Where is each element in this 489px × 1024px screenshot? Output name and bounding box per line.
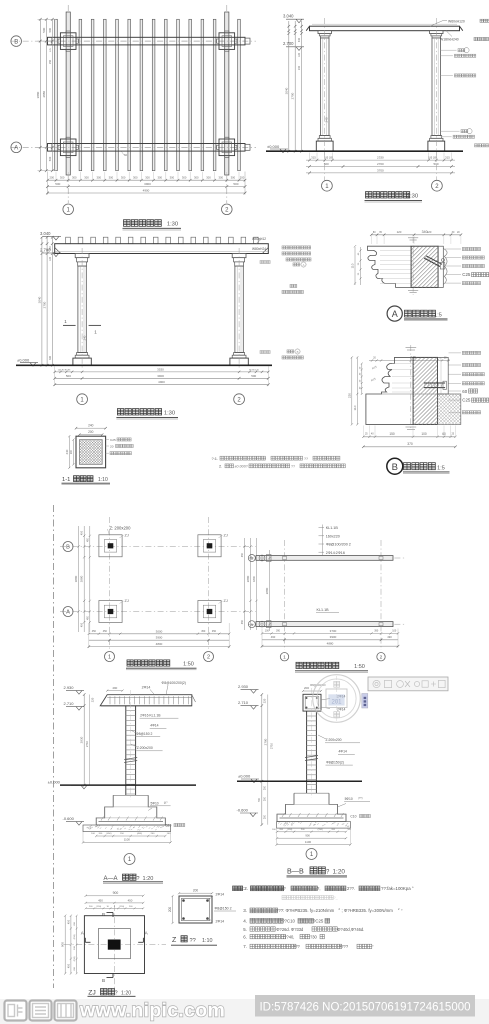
svg-text:??:fak=100Kpa °: ??:fak=100Kpa ° [381,886,414,891]
svg-text:160x220: 160x220 [326,535,340,539]
svg-text:B: B [14,39,18,45]
roof plan - beam KL1.1B top [256,556,393,561]
svg-text:1:20: 1:20 [333,868,346,875]
svg-text:500: 500 [233,182,238,186]
detail B - left side leader labels [287,350,290,353]
svg-text:110: 110 [353,405,357,410]
svg-text:450: 450 [92,630,97,633]
svg-text:2700: 2700 [291,92,295,99]
svg-text::??C10: :??C10 [281,919,295,924]
svg-text:Z:200x200: Z:200x200 [326,738,342,742]
plan view - title block text [124,220,131,227]
svg-text:?C25: ?C25 [313,919,324,924]
foundation plan - axis bubble A [63,607,73,617]
plan view - axis bubble 2 [222,204,233,215]
svg-text:120 90 90 85: 120 90 90 85 [58,369,72,371]
svg-text:2.710: 2.710 [64,701,75,706]
foundation plan - bottom dimension rows [89,633,229,635]
ZJ plan - centerlines [113,905,115,988]
foundation plan - centerlines [60,546,256,548]
section B-B - bottom dimension rows [277,831,346,833]
svg-text:500: 500 [251,374,256,378]
svg-text:340: 340 [298,37,301,42]
front elevation - axis bubble 1 [77,394,88,405]
section B-B - beam section at top [303,694,321,711]
svg-text:1-1: 1-1 [62,477,70,483]
Z detail - top dimension 200 [179,892,212,894]
svg-text:(150): (150) [74,956,76,961]
detail B - title bubble and text [387,458,403,474]
svg-text:(450): (450) [137,833,142,835]
svg-text:220: 220 [262,698,266,703]
svg-text:200: 200 [263,785,266,790]
Z detail - column section square [179,896,212,923]
svg-text:Φ8@150 2: Φ8@150 2 [215,906,232,910]
plan view - beam end caps [51,37,53,45]
svg-text:200: 200 [193,888,199,892]
svg-text:300: 300 [121,176,126,180]
svg-text:Z: 200x200: Z: 200x200 [110,526,132,531]
detail B - bottom dimension rows [363,436,455,438]
svg-text:4880: 4880 [327,642,334,646]
svg-text:200: 200 [263,814,266,819]
svg-text:370: 370 [407,442,413,446]
ID gray box [255,995,475,1017]
side elevation - top leader labels W60xH120 [430,21,443,27]
plan view - axis bubble B [11,36,22,47]
svg-text:B: B [250,556,253,561]
plan view - axis bubble 1 [63,204,74,215]
svg-text:1:10: 1:10 [98,477,108,483]
svg-text:(150): (150) [96,906,101,908]
svg-text:4Φ14: 4Φ14 [150,724,158,728]
svg-text:2: 2 [207,655,210,661]
svg-text:??: ?? [262,457,266,461]
svg-text:450: 450 [241,619,244,624]
svg-text:KL1.1B: KL1.1B [326,526,339,530]
svg-text:(150): (150) [74,934,76,939]
svg-text:900: 900 [113,891,119,895]
svg-text:±0.000?: ±0.000? [235,464,248,468]
svg-text:450: 450 [81,530,84,535]
svg-text:±0.000: ±0.000 [238,773,251,778]
svg-text:KL1.1B: KL1.1B [317,608,330,612]
svg-text:1800: 1800 [252,576,256,582]
svg-text:3700: 3700 [330,629,337,633]
svg-text:2880: 2880 [246,575,250,582]
nipic circular stamp watermark [313,675,361,723]
svg-text:?: ? [137,876,140,882]
detail B - right lower hatched cushion [438,394,461,424]
section 1-1 - right leader labels [106,439,109,441]
svg-text:W80xH24: W80xH24 [252,247,266,251]
svg-text:500: 500 [55,182,60,186]
roof plan - bottom dimension rows [262,632,398,634]
svg-text:(150): (150) [287,829,292,831]
svg-text:2: 2 [380,655,383,661]
svg-text:240: 240 [298,65,301,70]
svg-text:300: 300 [145,176,150,180]
svg-text:2Φ14: 2Φ14 [142,686,151,690]
section A-A - column splice break marks [124,758,137,760]
svg-text:220: 220 [91,697,95,702]
svg-text:Φ8@150(2): Φ8@150(2) [326,761,344,765]
svg-text:2700: 2700 [43,301,47,308]
svg-text:240: 240 [82,335,86,340]
svg-text:B: B [392,462,398,473]
general notes faint overlap line [282,896,286,900]
svg-text:W60xH12: W60xH12 [252,237,266,241]
detail B - left dimension stack [351,357,353,424]
front elevation - section cut 1-1 marks [63,324,76,326]
roof plan - beam start column symbol top [259,555,265,561]
svg-text:60: 60 [442,432,446,436]
svg-text:1:20: 1:20 [121,990,131,996]
foundation plan - axis bubble 1 [105,652,115,662]
svg-text:2??.: 2??. [347,886,355,891]
svg-text:1: 1 [283,655,286,661]
svg-text:315: 315 [311,156,316,160]
svg-text:2.930: 2.930 [64,685,75,690]
svg-text:-0.600: -0.600 [63,816,75,821]
svg-text:2.: 2. [219,463,222,468]
svg-text:??: ?? [190,938,196,944]
svg-text:3700: 3700 [377,169,384,173]
svg-text:2880: 2880 [265,587,269,594]
foundation plan - left dimension stack [78,526,80,632]
svg-text:300: 300 [231,176,236,180]
detail A - center line and marks [412,237,414,295]
svg-text:C10: C10 [350,814,356,818]
side elevation - axis bubble 2 [435,152,437,180]
svg-text:240: 240 [88,424,94,428]
svg-text:120: 120 [427,230,432,234]
svg-text:2710: 2710 [85,740,89,747]
svg-text:3.040: 3.040 [283,14,294,19]
detail A - left molding profile [368,246,412,287]
svg-text:??: ?? [281,886,286,891]
roof plan - beam start column symbol bottom [259,621,265,627]
svg-text:1:30: 1:30 [167,222,178,228]
svg-text:A: A [392,309,398,319]
svg-text:200: 200 [88,430,94,434]
svg-text:C25: C25 [110,438,116,442]
svg-text:; Φ?HRB335. fy=300N/mm: ; Φ?HRB335. fy=300N/mm [342,908,394,913]
svg-text:700: 700 [258,797,261,802]
svg-text:1:50: 1:50 [183,661,194,667]
svg-text:4.: 4. [243,919,247,924]
svg-text:(150): (150) [119,906,124,908]
svg-text:ZJ: ZJ [125,533,129,537]
foundation plan - axis bubble B [63,542,73,552]
svg-text:110: 110 [351,263,355,268]
svg-text:2Φ14: 2Φ14 [216,919,225,923]
svg-text:3900: 3900 [144,182,151,186]
detail B - top dimension row [369,360,450,362]
svg-text:100: 100 [392,630,397,633]
svg-text:20: 20 [110,444,114,448]
svg-text:2880: 2880 [42,91,46,98]
detail A - left side leader labels [282,246,285,249]
sheet edge dashed line [53,505,55,988]
plan view - vertical axis centerline 1 [67,5,69,203]
svg-text:450: 450 [128,898,133,902]
svg-text:185 185: 185 185 [324,157,333,160]
svg-text:450: 450 [241,552,244,557]
svg-text:300: 300 [218,176,223,180]
pergola plan view - axis centerline B [11,40,257,42]
svg-text:315: 315 [445,156,450,160]
Z detail - left dimension 200 [172,896,174,923]
svg-text:450: 450 [98,898,103,902]
front elevation - title text [117,409,123,415]
svg-text:4900: 4900 [158,380,165,384]
svg-text:W180xH240: W180xH240 [440,38,459,42]
svg-text:3.040: 3.040 [40,231,51,236]
side elevation - axis bubble 1 [324,152,326,180]
svg-text:2710: 2710 [269,742,273,749]
foundation plan - footings ZJ [99,535,122,557]
svg-text:±0.000: ±0.000 [48,780,61,785]
roof plan - axis bubble 1 [280,653,288,661]
svg-text::2.: :2. [243,886,248,891]
svg-text:?30: ?30 [310,934,318,939]
front elevation - main beam [55,244,269,254]
svg-text:???: ??? [293,944,301,949]
svg-text:Φ8@100/200(2): Φ8@100/200(2) [162,681,186,685]
svg-text:3880: 3880 [36,91,40,98]
section A-A - dim 490 and rebar labels [107,690,122,692]
plan view - top beam (axis B) [48,37,246,45]
svg-text:1100: 1100 [305,840,312,844]
svg-text:ZJ: ZJ [88,989,96,996]
svg-text:3530: 3530 [157,367,164,371]
svg-text:2700: 2700 [377,162,384,166]
svg-text:??: ?? [304,457,308,461]
svg-text:450: 450 [212,630,217,633]
svg-text:2930: 2930 [80,736,84,743]
svg-text:A: A [250,622,253,627]
svg-text:200: 200 [49,176,54,180]
svg-text:?,: ?, [317,886,321,891]
plan view - vertical axis centerline 2 [226,5,228,203]
side elevation - bottom dimension rows [306,159,455,161]
svg-text:450: 450 [201,630,206,633]
svg-text:240: 240 [325,117,329,122]
svg-text:2790: 2790 [263,738,267,745]
svg-text:300: 300 [84,176,89,180]
svg-text:60: 60 [124,153,128,157]
svg-text:340: 340 [49,246,52,251]
svg-text:3880: 3880 [74,575,78,582]
section A-A - left dimension line [83,695,85,786]
ZJ plan - outer footing square [84,916,144,974]
foundation plan - axis bubble 2 [204,652,214,662]
svg-text:C25: C25 [462,272,471,277]
svg-text:5.: 5. [243,927,247,932]
svg-text:900: 900 [61,942,65,947]
svg-text:1:10: 1:10 [202,938,213,944]
svg-text:240: 240 [65,449,69,454]
roof plan - beam KL1.1B bottom [256,622,393,627]
svg-text:490: 490 [271,635,276,639]
svg-text:3040: 3040 [37,296,41,303]
svg-text:Z:200x200: Z:200x200 [137,746,153,750]
svg-text:Φ8@100/200 2: Φ8@100/200 2 [326,543,351,547]
svg-text:??(?_: ??(?_ [328,896,339,900]
side elevation - title text [366,192,372,198]
svg-text:A: A [303,263,305,267]
detail B - bottom center marks [406,426,417,428]
plan view - left dimension lines [39,19,41,170]
front elevation - bottom dimension rows [55,371,269,373]
svg-text:900: 900 [305,833,310,837]
detail A - hatched core block [411,246,438,287]
svg-text:3000: 3000 [156,629,163,633]
svg-text:?: ? [115,990,118,996]
svg-text:300: 300 [72,176,77,180]
svg-text:1: 1 [108,655,111,661]
side elevation - left column [318,31,331,34]
svg-text:300: 300 [109,176,114,180]
svg-text:300: 300 [60,176,65,180]
section B-B - stepped footing [277,793,346,821]
svg-text:60: 60 [462,389,467,394]
section A-A - stepped footing [96,795,165,825]
svg-text:200: 200 [70,449,73,454]
bottom watermark bar background [0,999,489,1024]
foundation plan - title text [127,660,133,666]
section A-A - footing rebar hooks [101,817,104,821]
svg-text::??40,: :??40, [283,934,294,939]
svg-text:5Φ10: 5Φ10 [345,797,353,801]
svg-text:300: 300 [49,355,52,360]
svg-text:: Φ?40d,Φ?46d.: : Φ?40d,Φ?46d. [335,927,364,932]
svg-text:3900: 3900 [156,636,163,640]
svg-text:1100: 1100 [124,838,131,842]
svg-text:B: B [102,978,105,983]
detail B - right leader labels [449,352,462,354]
ZJ plan - inner footing square [99,929,131,959]
svg-text:450: 450 [103,630,108,633]
svg-text:2.930: 2.930 [238,684,249,689]
svg-text:2Φ16 KL1.1B: 2Φ16 KL1.1B [140,714,161,718]
svg-text:??: ?? [291,464,295,468]
svg-text:5Φ10: 5Φ10 [151,801,159,805]
svg-text:100: 100 [421,432,427,436]
svg-text:300: 300 [170,176,175,180]
svg-text:2330: 2330 [377,156,384,160]
svg-text:±0.000: ±0.000 [267,144,280,149]
svg-text:390: 390 [374,630,379,633]
detail B - left molding profile with steps [366,357,413,424]
plan view - axis bubble A [11,142,22,153]
svg-text:A—A: A—A [104,876,118,882]
svg-text:(450): (450) [106,833,111,835]
detail A - title bubble and text [387,306,402,321]
section A-A - column ladder [125,706,127,796]
section B-B - dim 200 above beam [303,690,321,692]
plan view - bottom dimension lines [48,179,246,181]
svg-text:ZJ: ZJ [125,599,129,603]
side elevation - right column [430,31,443,34]
svg-text:490: 490 [387,635,392,639]
svg-text:150: 150 [389,432,395,436]
front elevation - left dimension stack [41,237,43,365]
roof plan - top leader note KL1.1B [322,525,324,556]
svg-text:6.: 6. [243,934,247,939]
svg-text:120: 120 [397,230,402,234]
pergola plan view - axis centerline A [11,146,257,148]
svg-text:120: 120 [49,256,52,261]
svg-text:±0.000: ±0.000 [17,357,30,362]
svg-text:C25: C25 [462,398,471,403]
svg-text:2Φ14: 2Φ14 [216,892,225,896]
svg-text:3040: 3040 [284,87,288,94]
svg-text:7.: 7. [243,944,247,949]
svg-text:1:30: 1:30 [407,193,418,199]
svg-text:3.: 3. [243,908,247,913]
svg-text:3900: 3900 [330,635,337,639]
svg-text:300: 300 [182,176,187,180]
svg-text:1:30: 1:30 [164,410,175,416]
svg-text:2.710: 2.710 [238,700,249,705]
svg-text:4800: 4800 [156,642,163,646]
section B-B - axis bubble 1 [306,849,317,860]
svg-text:2Φ14:2Φ16: 2Φ14:2Φ16 [326,551,345,555]
svg-text:85 90 120: 85 90 120 [249,369,260,371]
front elevation - columns [75,254,89,258]
detail A - left dimension stack [354,247,356,285]
section B-B - column ladder [306,711,308,793]
svg-text:: Φ?26d. Φ?33d: : Φ?26d. Φ?33d [274,927,304,932]
svg-text:ID:5787426 NO:2015070619172461: ID:5787426 NO:20150706191724615000 [259,1002,470,1014]
general notes line 1 [233,886,238,891]
section A-A - top beam with stirrups [100,695,192,706]
detail B - center line and top marks [410,345,412,430]
section A-A - gravel bed C10 [83,825,171,832]
section B-B - footing rebar hooks [282,813,285,817]
svg-text:390: 390 [276,630,281,633]
side elevation - top beam [310,26,460,31]
roof plan - axis centerlines [248,557,405,559]
side elevation - right leader labels [441,49,457,51]
ZJ plan - column black square [108,940,121,950]
front elevation - right clipped labels [256,239,262,244]
banner watermark box [368,677,448,691]
svg-text:220: 220 [347,393,351,398]
detail B - anchor bolt horizontal [424,382,445,384]
svg-text:500: 500 [42,27,46,32]
section 1-1 - left dimensions [68,436,70,468]
section B-B - left dimension lines [261,695,263,825]
svg-text:B: B [297,350,299,354]
svg-text:(??): (??) [358,796,363,800]
section A-A - bottom dimension rows [96,835,165,837]
svg-text:3900: 3900 [157,374,164,378]
section B-B - column splice break marks [305,756,318,758]
ZJ plan - left dimension stack [64,916,66,974]
detail A - right board and profile [438,246,443,287]
roof plan - left dimension line [269,550,271,631]
svg-text:200: 200 [168,907,172,913]
svg-text:300: 300 [206,176,211,180]
front elevation - rafter tabs on beam [66,237,71,244]
foundation plan - right dimension stack [244,538,246,630]
roof plan - title text [296,662,302,668]
plan view - roof slats [55,19,58,170]
svg-text:200: 200 [263,796,266,801]
